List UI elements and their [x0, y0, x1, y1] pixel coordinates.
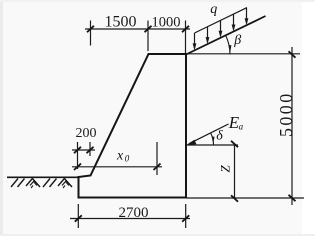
delta reference line — [187, 144, 239, 146]
beta angle arc — [226, 35, 230, 54]
ground hatch group 2 — [43, 179, 72, 189]
svg-text:1500: 1500 — [105, 14, 137, 31]
ground line (left) — [7, 176, 79, 178]
svg-text:5000: 5000 — [276, 91, 296, 137]
bottom edge shading — [0, 234, 315, 236]
beta arc arrowhead — [229, 45, 232, 53]
top dimension line — [85, 28, 190, 30]
svg-text:2700: 2700 — [119, 205, 149, 221]
x0 dimension line — [72, 166, 162, 168]
svg-text:Z: Z — [218, 165, 233, 173]
top dim tick middle — [145, 26, 152, 32]
top dim extension line left — [90, 21, 92, 46]
q arrow 1 — [193, 33, 197, 50]
5000 top tick — [289, 51, 296, 57]
left edge shading — [0, 0, 3, 236]
svg-text:200: 200 — [76, 126, 97, 141]
200 extension line left — [77, 142, 79, 169]
surcharge q tail line — [195, 8, 248, 33]
top dim extension line right — [185, 21, 187, 54]
2700 extension line right — [185, 204, 187, 228]
Z dimension line — [234, 144, 236, 199]
base level extension line (right of wall) — [186, 197, 304, 199]
delta arc arrowhead — [212, 136, 215, 143]
q arrow 4 — [232, 14, 236, 31]
2700 tick right — [182, 215, 189, 221]
5000 dimension line — [291, 47, 293, 205]
backfill slope line — [186, 16, 266, 55]
q arrow 3 — [219, 20, 223, 37]
q arrow 2 — [206, 27, 210, 44]
svg-text:0: 0 — [125, 154, 130, 164]
q arrow 5 — [245, 8, 249, 25]
svg-text:x: x — [116, 149, 124, 164]
x0 tick right — [154, 164, 161, 170]
top dim tick right — [182, 26, 189, 32]
top edge shading — [0, 0, 315, 2]
svg-text:1000: 1000 — [152, 15, 181, 31]
retaining wall outline — [79, 54, 187, 198]
5000 bottom tick — [289, 195, 296, 201]
Z bottom tick — [231, 195, 238, 201]
svg-text:q: q — [210, 2, 217, 17]
2700 extension line left — [77, 204, 79, 228]
ground hatch group 1 — [11, 179, 40, 189]
top dim extension line middle — [147, 21, 149, 52]
200 tick left — [74, 147, 81, 153]
2700 dimension line — [70, 218, 190, 220]
200 dimension line — [72, 149, 95, 151]
svg-text:β: β — [233, 33, 241, 48]
200 extension line right — [89, 142, 91, 156]
top dim tick left — [87, 26, 94, 32]
x0 extension line right — [156, 142, 158, 175]
Ea arrowhead — [187, 140, 197, 145]
svg-text:δ: δ — [216, 129, 223, 144]
delta angle arc — [211, 133, 214, 145]
top level line (right of wall) — [186, 53, 300, 55]
Z top tick — [231, 141, 238, 147]
right white page margin — [302, 0, 315, 236]
Ea force line — [189, 124, 229, 144]
200 tick right — [87, 147, 94, 153]
svg-text:a: a — [239, 122, 244, 132]
2700 tick left — [75, 215, 82, 221]
x0 tick left — [74, 164, 81, 170]
